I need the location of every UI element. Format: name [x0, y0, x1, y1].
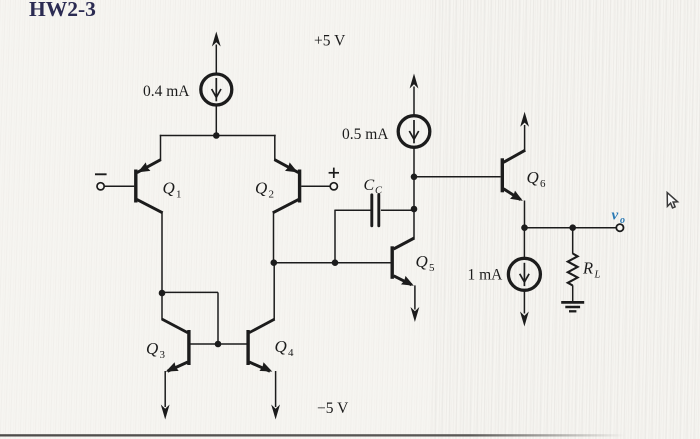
- svg-text:3: 3: [160, 349, 166, 361]
- wire Q5 collector to Q6 base: [414, 176, 501, 178]
- bottom page edge: [0, 434, 625, 436]
- svg-text:Q: Q: [163, 179, 175, 198]
- node Cc tap junction: [332, 259, 339, 266]
- label 0.4 mA: [143, 83, 190, 100]
- current source I2 0.5 mA: [398, 74, 430, 239]
- svg-text:Q: Q: [146, 339, 158, 358]
- svg-text:4: 4: [288, 347, 294, 359]
- node Q6 base junction: [411, 174, 418, 181]
- label RL: [582, 259, 601, 281]
- svg-text:0.5 mA: 0.5 mA: [342, 126, 389, 143]
- wire top rail: [160, 135, 276, 137]
- label -5 V: [317, 400, 349, 417]
- transistor Q5: [392, 238, 419, 322]
- node Q2-Q4 collector junction: [271, 259, 278, 266]
- label +5 V: [314, 33, 346, 50]
- capacitor Cc: [334, 195, 414, 263]
- svg-text:R: R: [582, 259, 593, 278]
- node base rail junction: [215, 341, 222, 348]
- current source I1 0.4 mA: [201, 32, 232, 137]
- svg-text:HW2-3: HW2-3: [29, 0, 96, 21]
- transistor Q6: [502, 112, 529, 228]
- transistor Q3: [161, 319, 189, 419]
- label Q3: [146, 339, 166, 361]
- ground: [561, 302, 584, 311]
- wire Q2 collector: [273, 212, 275, 263]
- node Q3 collector junction: [159, 290, 166, 297]
- svg-text:−5 V: −5 V: [317, 400, 349, 417]
- terminal plus input: [329, 168, 339, 190]
- label vo: [612, 208, 626, 227]
- wire mirror feedback: [162, 292, 218, 344]
- transistor Q1: [105, 135, 163, 213]
- svg-text:L: L: [594, 270, 601, 281]
- label Q2: [255, 179, 274, 201]
- svg-text:o: o: [620, 215, 625, 226]
- label Q1: [163, 179, 182, 201]
- svg-text:1: 1: [176, 189, 182, 201]
- terminal vo: [616, 224, 623, 231]
- current source I3 1 mA: [508, 228, 540, 327]
- svg-text:0.4 mA: 0.4 mA: [143, 83, 190, 100]
- wire Q1 collector: [161, 212, 163, 320]
- label Q6: [527, 168, 547, 190]
- svg-text:1 mA: 1 mA: [468, 267, 504, 284]
- node RL top junction: [569, 224, 576, 231]
- svg-text:C: C: [364, 177, 375, 194]
- label 1 mA: [468, 267, 504, 284]
- resistor RL: [568, 228, 578, 302]
- terminal minus input: [95, 174, 107, 190]
- label Cc: [364, 177, 384, 197]
- svg-text:5: 5: [429, 262, 435, 274]
- mouse cursor: [667, 193, 677, 208]
- svg-text:2: 2: [269, 189, 275, 201]
- svg-text:+5 V: +5 V: [314, 33, 346, 50]
- node top rail junction: [213, 132, 220, 139]
- svg-text:Q: Q: [527, 168, 539, 187]
- svg-text:Q: Q: [275, 337, 287, 356]
- title HW2-3: [29, 0, 96, 21]
- svg-text:Q: Q: [255, 179, 267, 198]
- wire Q3-Q4 base rail: [191, 343, 247, 345]
- wire Q4 collector: [273, 264, 275, 320]
- wire mid rail to Q5 base: [274, 262, 391, 264]
- svg-text:v: v: [612, 208, 619, 224]
- transistor Q4: [248, 319, 280, 419]
- svg-text:Q: Q: [416, 252, 428, 271]
- label 0.5 mA: [342, 126, 389, 143]
- wire output rail: [525, 227, 617, 229]
- svg-text:C: C: [375, 186, 383, 197]
- transistor Q2: [273, 135, 330, 213]
- node Cc right junction: [411, 206, 418, 213]
- svg-text:6: 6: [540, 178, 546, 190]
- label Q4: [275, 337, 295, 359]
- label Q5: [416, 252, 436, 274]
- node Q6 emitter junction: [521, 224, 528, 231]
